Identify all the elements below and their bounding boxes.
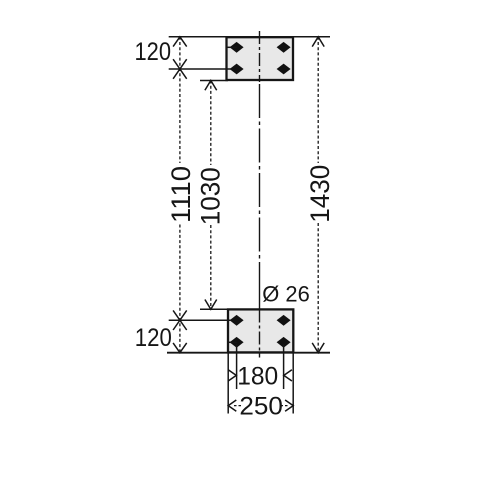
svg-text:180: 180 [237,362,278,390]
plate edge extension line right (x=293.2) [292,353,294,414]
arrow down at (318.2,352.7) [312,343,324,353]
svg-text:250: 250 [239,393,283,421]
crossed arrows at (180,69) [173,59,187,79]
svg-text:1430: 1430 [305,165,335,223]
top plate bolt hole (lower-left diamond) [230,64,244,75]
bottom plate bolt hole (upper-left diamond) [230,315,244,326]
bolt extension line left (x=236.3) [236,344,238,389]
250 dimension arrow pointing right at plate edge [285,400,293,411]
dimension line x=210.3 (1030), dashed [210,81,212,310]
arrow down at (180,352.7) [173,343,187,353]
extension line: top of post (y=36.8) [169,36,330,38]
bottom plate bolt hole (lower-left diamond) [230,337,244,348]
svg-text:Ø 26: Ø 26 [262,281,310,306]
extension line: top plate bottom edge (y=80.5) [200,80,228,82]
top flange plate [227,37,294,80]
svg-text:1030: 1030 [196,167,226,225]
top plate bolt hole (upper-left diamond) [230,42,244,53]
180 dimension arrow pointing right at bolt line [228,370,236,381]
extension line: bottom plate top edge (y=309.3) [200,308,230,310]
bottom flange plate [228,309,293,352]
180 dimension arrow pointing left at bolt line [284,370,292,381]
250 dimension arrow pointing left at plate edge [228,400,236,411]
svg-text:120: 120 [135,324,172,352]
extension line: top plate lower bolt row (y=69) [169,68,231,70]
arrow up at (318.2,36.8) [312,37,324,47]
arrow up at (180,36.8) [173,37,187,47]
top plate bolt hole (upper-right diamond) [277,42,291,53]
250 dimension stub left [234,405,241,407]
crossed arrows at (180,320.2) [173,310,187,330]
bottom plate bolt hole (lower-right diamond) [277,337,291,348]
250 dimension stub right [281,405,288,407]
stub line to plate edge (lower-left bolt) [229,341,237,343]
center line (post axis, dash-dot) [259,31,261,358]
svg-text:1110: 1110 [166,166,196,223]
dimension line x=180 (120 top / 1110 / 120 bottom), dashed [179,37,181,353]
extension line: bottom plate upper bolt row (y=320.2) [169,319,231,321]
plate edge extension line left (x=228.2) [227,353,229,414]
stub line to plate edge (upper-left bolt) [228,46,238,48]
top plate bolt hole (lower-right diamond) [277,64,291,75]
bottom plate bolt hole (upper-right diamond) [277,315,291,326]
dimension line x=318.2 (1430), dashed [317,37,319,353]
svg-text:120: 120 [135,38,172,66]
bolt extension line right (x=283.8) [283,344,285,389]
arrow down at (210.3,309.3) [205,300,217,310]
ground line (y=352.7) [167,352,330,354]
arrow up at (210.3,80.5) [205,81,217,91]
